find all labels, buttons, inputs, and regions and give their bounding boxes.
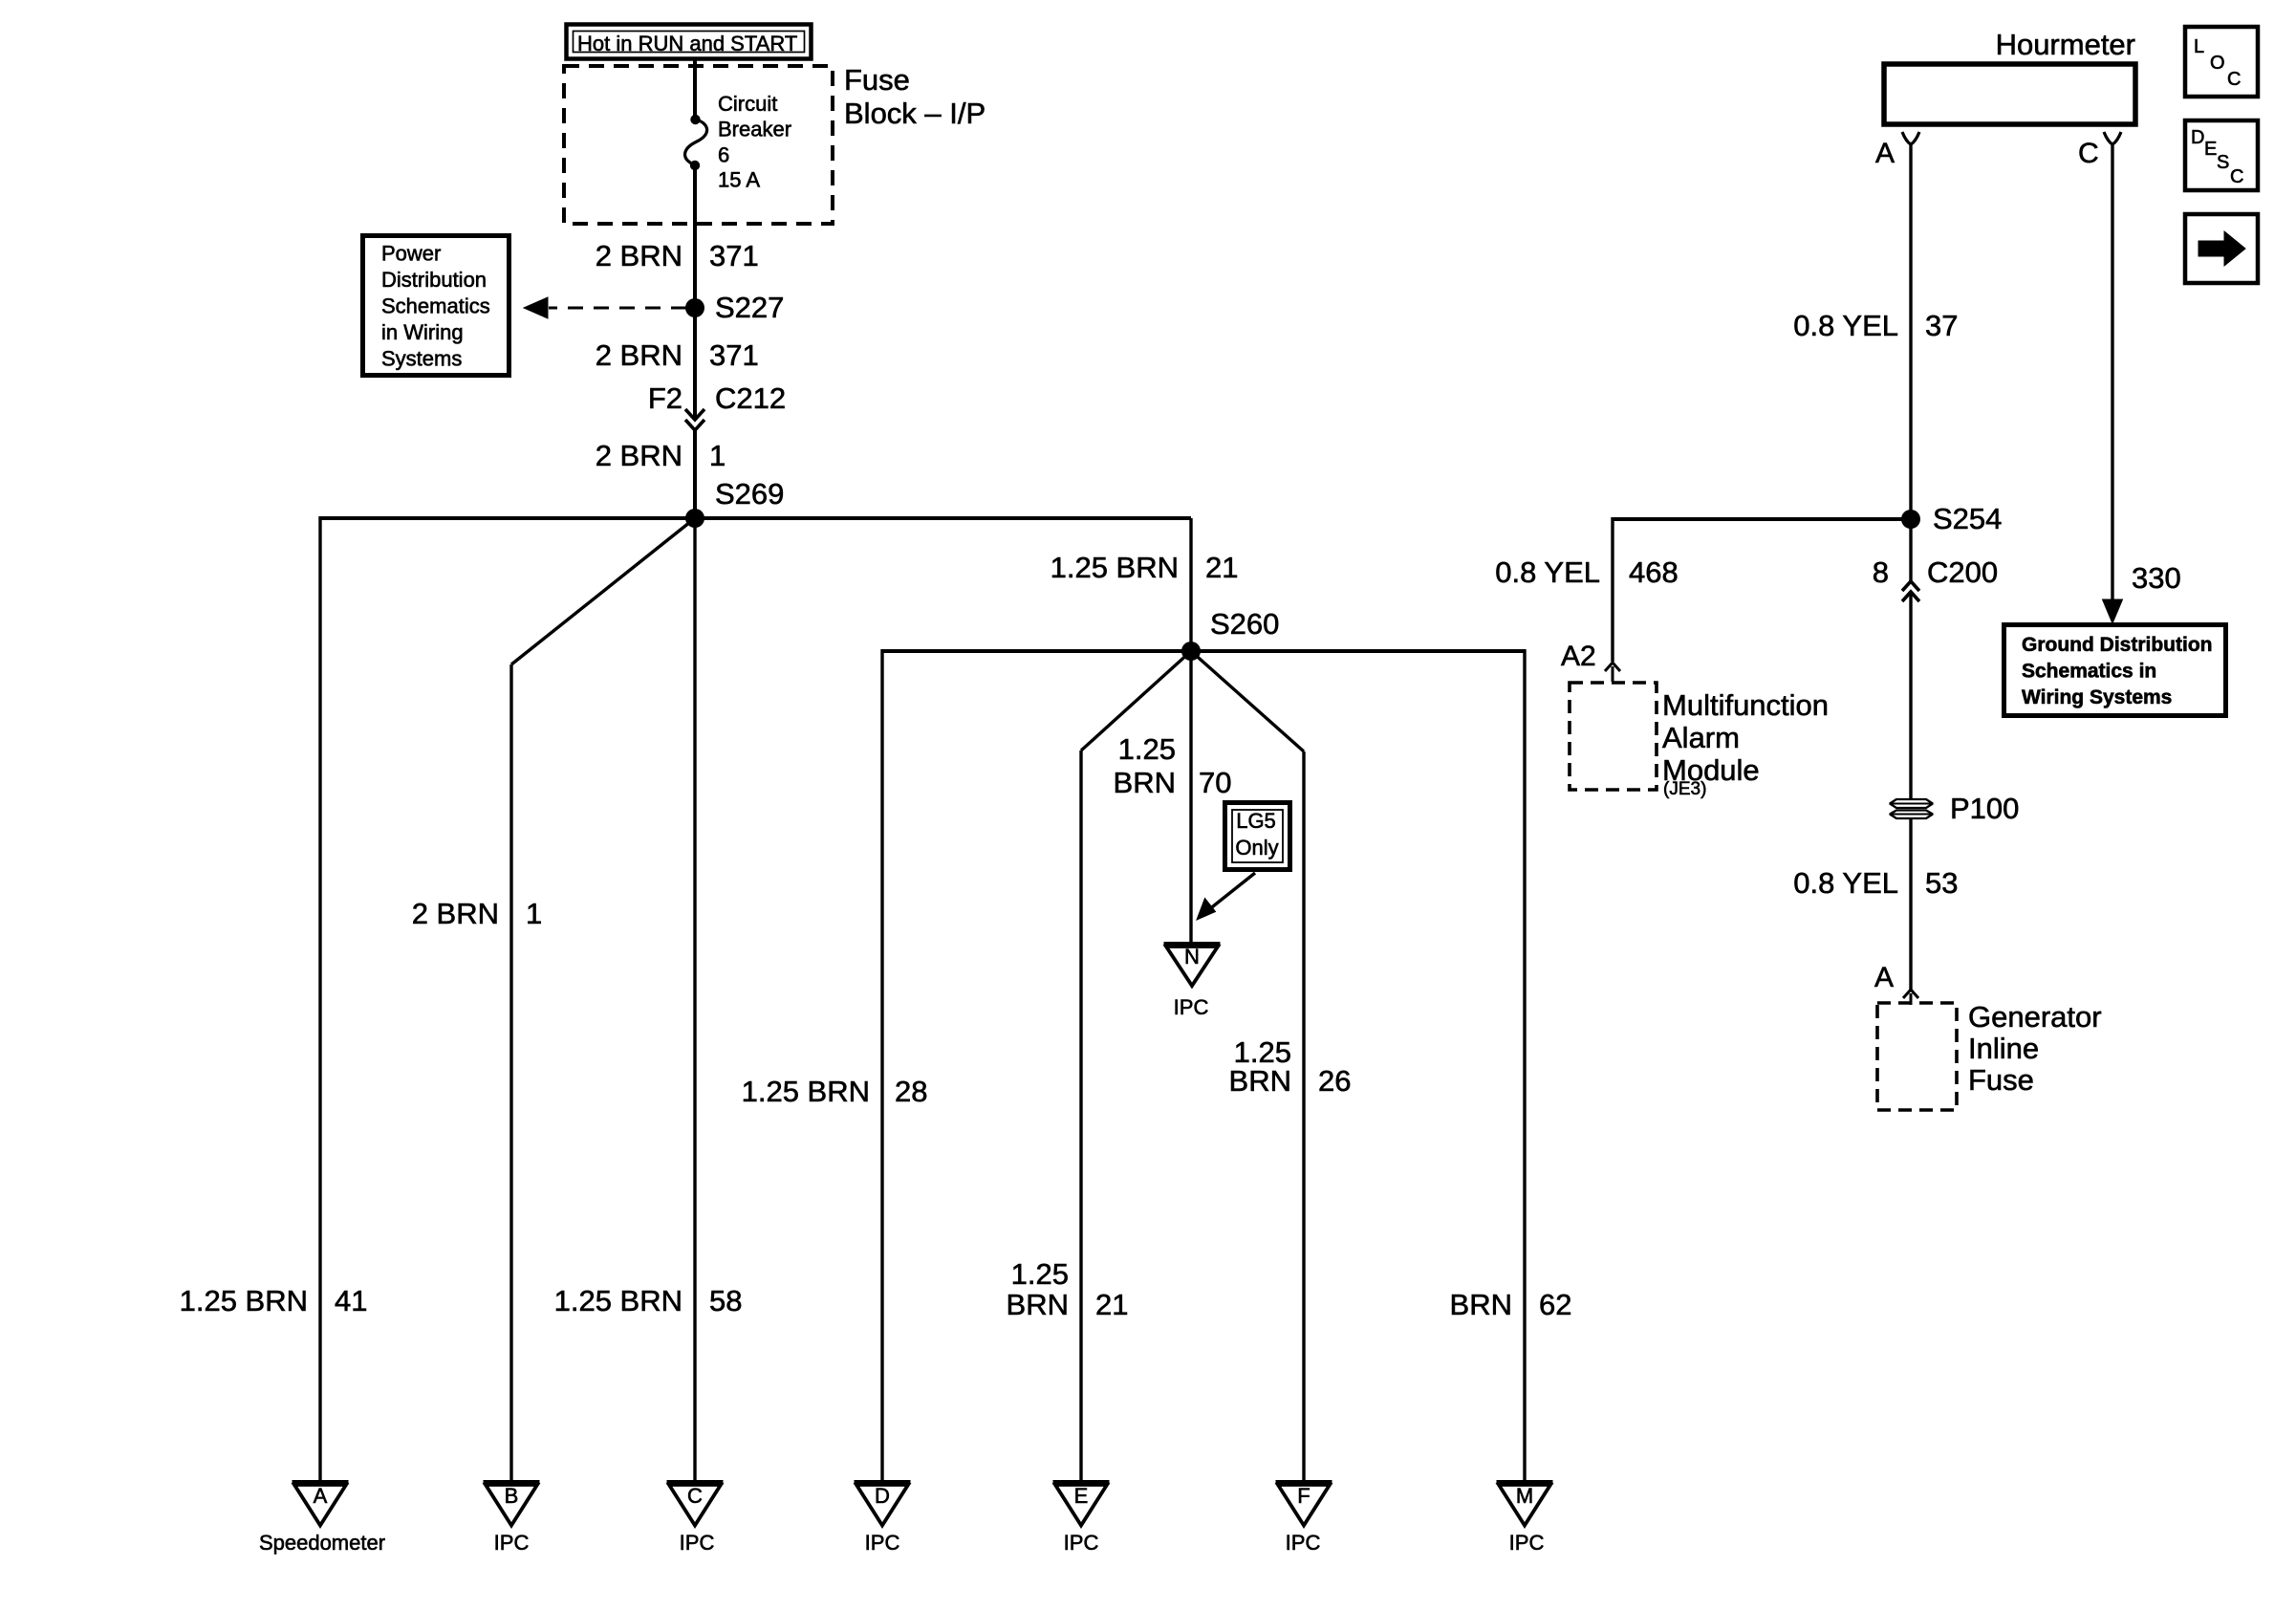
label box: LG5 Only — [1225, 803, 1290, 870]
wire: branch C vertical — [693, 518, 696, 1481]
fuse block dashed box — [564, 66, 833, 224]
svg-text:2 BRN: 2 BRN — [596, 439, 682, 472]
svg-text:D: D — [2191, 127, 2204, 148]
wire: S227 down to C212 — [693, 308, 697, 419]
svg-text:1: 1 — [526, 897, 542, 930]
label: Fuse Block - I/P — [844, 63, 986, 130]
svg-text:IPC: IPC — [1064, 1531, 1099, 1555]
svg-text:C200: C200 — [1927, 555, 1998, 589]
wire: branch N vertical — [1189, 651, 1192, 942]
svg-text:70: 70 — [1199, 766, 1231, 799]
svg-text:S254: S254 — [1933, 502, 2002, 535]
svg-text:Schematics in: Schematics in — [2022, 661, 2156, 683]
wire: bus corner down to S260 — [1189, 518, 1192, 651]
svg-text:0.8 YEL: 0.8 YEL — [1793, 866, 1898, 900]
svg-text:26: 26 — [1318, 1064, 1351, 1098]
svg-text:F: F — [1297, 1484, 1310, 1508]
svg-text:1.25: 1.25 — [1011, 1257, 1069, 1291]
terminal pin A (Generator Inline Fuse) — [1874, 962, 1918, 1005]
svg-text:M: M — [1516, 1484, 1533, 1508]
circuit breaker CB6 15A (Fuse Block I/P) — [685, 92, 791, 192]
pin 8 / connector C200 label — [1873, 555, 1998, 589]
wire label: 1.25 BRN 21 (E) — [1007, 1257, 1129, 1321]
svg-text:L: L — [2194, 36, 2204, 57]
svg-text:Wiring Systems: Wiring Systems — [2022, 686, 2172, 708]
svg-text:(JE3): (JE3) — [1663, 779, 1706, 799]
bus wire from S260 — [882, 649, 1525, 653]
component: Hourmeter — [1884, 28, 2135, 124]
svg-text:Distribution: Distribution — [381, 268, 487, 292]
svg-text:62: 62 — [1539, 1288, 1571, 1321]
svg-text:1.25: 1.25 — [1118, 732, 1176, 766]
dashed arrow to Power Distribution box — [524, 297, 686, 318]
svg-text:P100: P100 — [1950, 792, 2019, 825]
svg-text:21: 21 — [1205, 551, 1238, 584]
svg-text:53: 53 — [1925, 866, 1958, 900]
wire: branch M vertical — [1523, 649, 1526, 1481]
svg-text:Generator: Generator — [1968, 1000, 2102, 1034]
wire: branch B diagonal+vertical — [511, 518, 695, 1481]
svg-text:F2: F2 — [648, 381, 682, 415]
svg-text:in Wiring: in Wiring — [381, 320, 464, 344]
svg-text:37: 37 — [1925, 309, 1958, 342]
wire: breaker to S227 — [693, 164, 697, 308]
svg-text:N: N — [1184, 945, 1200, 969]
wire label: 0.8 YEL 37 — [1793, 309, 1958, 342]
arrow from LG5 box to wire — [1197, 873, 1255, 920]
svg-text:371: 371 — [709, 239, 759, 272]
svg-text:41: 41 — [335, 1284, 367, 1317]
svg-text:Only: Only — [1235, 836, 1278, 860]
svg-text:1.25 BRN: 1.25 BRN — [180, 1284, 308, 1317]
svg-text:C: C — [2230, 166, 2243, 187]
wire label: BRN 62 — [1450, 1288, 1572, 1321]
svg-text:371: 371 — [709, 338, 759, 372]
svg-text:E: E — [1074, 1484, 1089, 1508]
wire: branch F diagonal+vertical — [1191, 651, 1304, 1481]
wire: hot feed into breaker — [693, 59, 697, 120]
svg-text:0.8 YEL: 0.8 YEL — [1793, 309, 1898, 342]
inline connector C212 (double chevron down) — [685, 409, 704, 430]
svg-text:IPC: IPC — [1286, 1531, 1321, 1555]
svg-text:B: B — [505, 1484, 519, 1508]
terminal A (to Speedometer) — [292, 1483, 349, 1526]
splice node S254 — [1901, 502, 2002, 535]
svg-text:Circuit: Circuit — [718, 92, 777, 116]
wire label: 1.25 BRN 26 (F) — [1229, 1035, 1352, 1098]
reference box: Ground Distribution Schematics in Wiring Systems — [2004, 625, 2226, 716]
splice node S260 — [1181, 607, 1279, 661]
svg-text:S: S — [2217, 152, 2229, 173]
svg-text:BRN: BRN — [1450, 1288, 1512, 1321]
wire label: 2 BRN 1 (branch B) — [412, 897, 543, 930]
svg-text:Hot in RUN and START: Hot in RUN and START — [577, 32, 797, 55]
wire label: 2 BRN 371 (breaker to S227) — [596, 239, 759, 272]
splice node S269 — [685, 477, 784, 528]
wire label: 1.25 BRN 41 — [180, 1284, 368, 1317]
wire label: 2 BRN 371 (S227 to C212) — [596, 338, 759, 372]
svg-text:1.25 BRN: 1.25 BRN — [554, 1284, 682, 1317]
terminal B (to IPC) — [484, 1483, 540, 1526]
svg-text:S227: S227 — [715, 291, 784, 324]
svg-text:330: 330 — [2132, 561, 2181, 595]
svg-text:O: O — [2210, 53, 2225, 74]
svg-text:Fuse: Fuse — [844, 63, 910, 97]
legend box LOC — [2185, 27, 2258, 97]
wire: branch A vertical — [318, 516, 321, 1481]
svg-text:2 BRN: 2 BRN — [596, 338, 682, 372]
svg-text:Multifunction: Multifunction — [1662, 688, 1829, 722]
svg-text:C: C — [2227, 69, 2241, 90]
svg-text:0.8 YEL: 0.8 YEL — [1495, 555, 1600, 589]
pin F2 / connector C212 label — [648, 381, 786, 415]
svg-text:Systems: Systems — [381, 347, 462, 371]
svg-text:C212: C212 — [715, 381, 786, 415]
svg-text:IPC: IPC — [494, 1531, 530, 1555]
svg-text:2 BRN: 2 BRN — [596, 239, 682, 272]
svg-text:Speedometer: Speedometer — [259, 1531, 385, 1555]
wire label: 1.25 BRN 70 — [1114, 732, 1232, 799]
wire: S254 down to C200 — [1909, 519, 1912, 581]
svg-text:IPC: IPC — [680, 1531, 715, 1555]
hourmeter pin A connector fork — [1875, 132, 1919, 169]
svg-text:BRN: BRN — [1114, 766, 1176, 799]
svg-text:1: 1 — [709, 439, 726, 472]
svg-text:A: A — [1875, 138, 1895, 169]
wire label: 2 BRN 1 (C212 to S269) — [596, 439, 726, 472]
svg-text:1.25 BRN: 1.25 BRN — [742, 1075, 870, 1108]
wire: branch D vertical — [880, 649, 883, 1481]
svg-text:468: 468 — [1629, 555, 1679, 589]
terminal E (to IPC) — [1053, 1483, 1110, 1526]
hourmeter pin C connector fork — [2078, 132, 2121, 169]
svg-text:Fuse: Fuse — [1968, 1063, 2034, 1097]
svg-text:A: A — [314, 1484, 328, 1508]
svg-text:IPC: IPC — [1174, 995, 1209, 1019]
svg-text:A2: A2 — [1561, 641, 1596, 672]
svg-text:Power: Power — [381, 242, 441, 266]
svg-text:Schematics: Schematics — [381, 294, 490, 318]
wire: hourmeter C down — [2111, 144, 2113, 600]
bus wire from S269 — [320, 516, 1191, 520]
wire: S254 to A2 — [1613, 517, 1911, 662]
splice node S227 — [685, 291, 784, 324]
wire label: 0.8 YEL 53 — [1793, 866, 1958, 900]
svg-text:58: 58 — [709, 1284, 742, 1317]
wire label: 1.25 BRN 21 — [1051, 551, 1239, 584]
label box: Hot in RUN and START — [567, 25, 812, 59]
svg-text:8: 8 — [1873, 555, 1889, 589]
svg-text:A: A — [1874, 962, 1894, 993]
svg-text:IPC: IPC — [1509, 1531, 1545, 1555]
svg-text:C: C — [2078, 138, 2099, 169]
terminal D (to IPC) — [855, 1483, 911, 1526]
terminal M (to IPC) — [1497, 1483, 1553, 1526]
terminal N (to IPC, LG5 only) — [1164, 945, 1221, 987]
wire: C212 to S269 — [693, 430, 697, 518]
svg-text:BRN: BRN — [1007, 1288, 1069, 1321]
inline connector C200 (double chevron up) — [1902, 581, 1919, 601]
svg-text:S269: S269 — [715, 477, 784, 511]
wire: C200 to P100 — [1909, 592, 1912, 799]
svg-text:28: 28 — [895, 1075, 927, 1108]
wire label: 0.8 YEL 468 — [1495, 555, 1678, 589]
svg-text:IPC: IPC — [865, 1531, 900, 1555]
svg-text:Alarm: Alarm — [1662, 721, 1740, 754]
svg-text:D: D — [875, 1484, 890, 1508]
svg-text:1.25 BRN: 1.25 BRN — [1051, 551, 1179, 584]
terminal F (to IPC) — [1276, 1483, 1332, 1526]
svg-text:Inline: Inline — [1968, 1032, 2039, 1065]
wire label: 1.25 BRN 28 — [742, 1075, 928, 1108]
svg-text:E: E — [2204, 139, 2217, 160]
wire label: 1.25 BRN 58 — [554, 1284, 743, 1317]
arrowhead down to ground box — [2103, 599, 2123, 623]
svg-text:21: 21 — [1095, 1288, 1128, 1321]
svg-text:BRN: BRN — [1229, 1064, 1291, 1098]
svg-text:LG5: LG5 — [1236, 809, 1276, 833]
reference box: Power Distribution Schematics in Wiring Systems — [363, 236, 509, 376]
svg-text:C: C — [687, 1484, 703, 1508]
component: Multifunction Alarm Module dashed box — [1570, 683, 1829, 799]
grommet pass-through P100 — [1890, 792, 2019, 825]
svg-text:2 BRN: 2 BRN — [412, 897, 499, 930]
terminal C (to IPC) — [667, 1483, 724, 1526]
svg-text:6: 6 — [718, 143, 729, 167]
svg-text:Block – I/P: Block – I/P — [844, 97, 986, 130]
legend box DESC — [2185, 120, 2258, 190]
terminal pin A2 (Multifunction Alarm Module) — [1561, 641, 1620, 682]
svg-text:Hourmeter: Hourmeter — [1996, 28, 2135, 61]
svg-text:15 A: 15 A — [718, 168, 760, 192]
svg-text:Breaker: Breaker — [718, 118, 791, 142]
legend box forward arrow — [2185, 214, 2258, 283]
component: Generator Inline Fuse dashed box — [1877, 1000, 2102, 1110]
wire: branch E diagonal+vertical — [1081, 651, 1191, 1481]
wire: hourmeter A to S254 — [1909, 144, 1912, 519]
wire: P100 to generator fuse — [1909, 818, 1912, 990]
svg-text:S260: S260 — [1210, 607, 1279, 641]
svg-text:Ground Distribution: Ground Distribution — [2022, 634, 2212, 656]
